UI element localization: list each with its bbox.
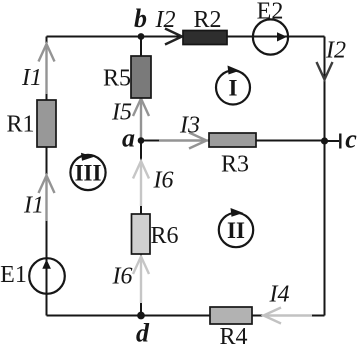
terminal tick at c <box>339 134 341 149</box>
current arrow I2 top (black, right) <box>165 29 182 45</box>
resistor R1 <box>37 100 56 147</box>
current arrow I5 (gray, up) <box>133 99 149 140</box>
svg-text:I2: I2 <box>325 38 346 64</box>
svg-text:R1: R1 <box>6 112 34 138</box>
svg-text:R4: R4 <box>219 324 247 345</box>
svg-text:I4: I4 <box>269 282 290 308</box>
svg-text:R3: R3 <box>221 152 249 178</box>
svg-text:I6: I6 <box>112 264 133 290</box>
current arrow I2 right (dark gray, down) <box>317 62 333 80</box>
current arrow I1 upper (gray, up) <box>39 44 55 94</box>
resistor R4 <box>210 307 252 324</box>
svg-text:III: III <box>75 161 102 186</box>
wire right vertical <box>324 37 326 316</box>
svg-text:II: II <box>227 218 245 243</box>
svg-text:E1: E1 <box>0 262 27 288</box>
wire middle vertical b-a-d <box>140 37 142 316</box>
node b junction dot <box>138 33 145 40</box>
EMF source E2 <box>253 19 288 54</box>
node c junction dot <box>321 137 328 144</box>
svg-text:I: I <box>229 76 238 101</box>
resistor R3 <box>209 133 256 147</box>
current arrow I4 (light gray, left) <box>264 308 313 324</box>
svg-text:I5: I5 <box>111 100 132 126</box>
wire middle horizontal a-c <box>141 140 325 142</box>
resistor R6 <box>132 214 151 254</box>
wire stub at node c <box>325 140 340 142</box>
svg-text:R2: R2 <box>193 7 221 33</box>
svg-text:R5: R5 <box>103 66 131 92</box>
current arrow I3 (gray, right) <box>159 133 207 149</box>
node d junction dot <box>137 312 145 320</box>
current arrow I6 lower (light gray, up) <box>133 257 149 304</box>
EMF source E1 <box>29 258 65 294</box>
svg-text:I3: I3 <box>179 113 200 139</box>
wire bottom horizontal <box>47 315 325 317</box>
resistor R5 <box>131 56 151 98</box>
svg-text:E2: E2 <box>257 0 284 25</box>
loop current I symbol <box>216 66 250 105</box>
loop current III symbol <box>70 153 105 190</box>
node a junction dot <box>138 137 145 144</box>
current arrow I1 lower (gray, up) <box>39 176 55 222</box>
svg-text:I6: I6 <box>153 168 174 194</box>
svg-text:I1: I1 <box>21 65 42 91</box>
svg-text:I2: I2 <box>155 7 176 33</box>
wire left vertical (a-b-d loop outer left) <box>46 37 48 316</box>
svg-text:b: b <box>134 4 147 33</box>
resistor R2 <box>183 31 227 45</box>
svg-text:I1: I1 <box>23 193 44 219</box>
loop current II symbol <box>219 208 253 247</box>
svg-text:d: d <box>136 319 150 345</box>
current arrow I6 upper (light gray, up) <box>133 161 149 206</box>
svg-text:c: c <box>345 125 357 154</box>
wire top horizontal <box>47 36 325 38</box>
svg-text:a: a <box>122 124 135 153</box>
svg-text:R6: R6 <box>150 223 178 249</box>
